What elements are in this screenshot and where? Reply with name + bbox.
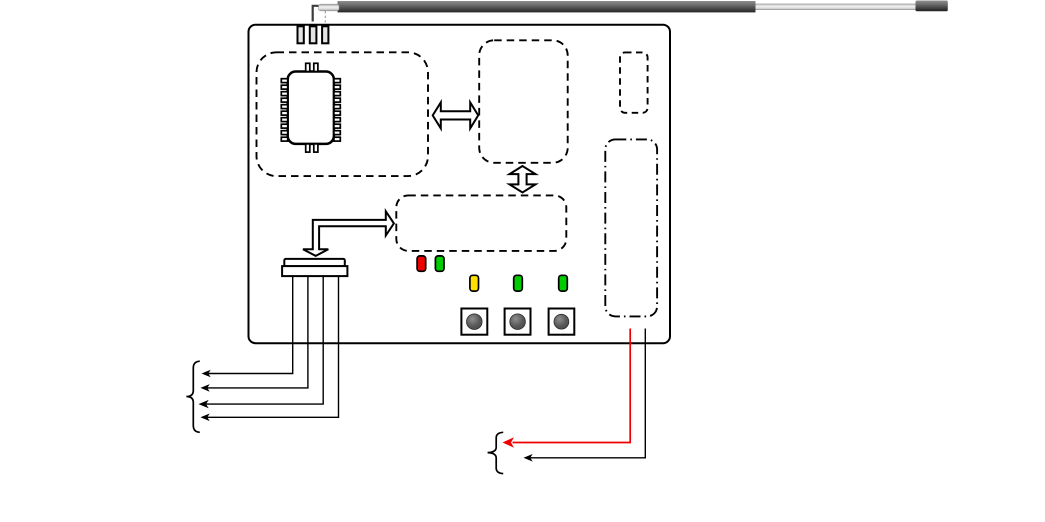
button 3 cap <box>554 314 569 329</box>
arrowhead 4 <box>201 414 210 422</box>
chip U1 body <box>288 72 334 144</box>
antenna dashed feed line <box>324 11 326 23</box>
chip U1 bottom pins <box>306 144 318 152</box>
antenna end cap <box>916 1 948 12</box>
LED yellow <box>470 275 479 291</box>
LED green 3 <box>559 275 568 291</box>
RF section dashed box <box>257 52 429 176</box>
elbow double arrow <box>303 211 394 256</box>
black arrowhead <box>524 454 533 462</box>
power section dash-dot box <box>605 139 657 316</box>
LED green 2 <box>514 275 523 291</box>
arrowhead 3 <box>199 400 209 408</box>
left brace <box>186 361 199 432</box>
right brace <box>488 432 504 473</box>
board outline <box>249 25 671 344</box>
button 1 cap <box>467 314 483 330</box>
interface dashed box <box>396 195 566 251</box>
antenna connector pin 1 <box>298 26 304 43</box>
chip U1 top pins <box>306 63 318 71</box>
button 2 square <box>505 309 531 335</box>
antenna feed wire <box>313 6 319 22</box>
LED red <box>417 256 426 271</box>
LED green 1 <box>435 256 444 271</box>
red supply wire <box>513 329 631 443</box>
connector pin wire 4 <box>204 276 339 417</box>
antenna connector pin 2 <box>310 26 317 43</box>
baseband dashed box <box>479 40 568 163</box>
antenna connector pin 3 <box>322 26 328 43</box>
arrowhead 1 <box>202 370 211 378</box>
small dashed box top right <box>620 52 648 112</box>
antenna tube (thin telescopic segment) <box>756 4 916 10</box>
vertical double arrow <box>510 166 536 193</box>
connector pin wire 1 <box>205 276 293 373</box>
button 1 square <box>461 309 487 335</box>
button 3 square <box>549 309 575 335</box>
red arrowhead <box>503 437 515 448</box>
arrowhead 2 <box>201 384 210 392</box>
chip U1 right pins <box>334 79 340 141</box>
connector pin wire 3 <box>203 276 324 404</box>
horizontal double arrow <box>433 102 479 128</box>
connector pin wire 2 <box>204 276 308 388</box>
connector bottom bar <box>282 266 347 276</box>
antenna rod (thick segment) <box>338 1 756 12</box>
black return wire <box>527 329 646 458</box>
chip U1 left pins <box>281 79 287 141</box>
connector top bar <box>284 259 345 266</box>
antenna base ferrule <box>319 4 340 11</box>
button 2 cap <box>510 314 526 330</box>
